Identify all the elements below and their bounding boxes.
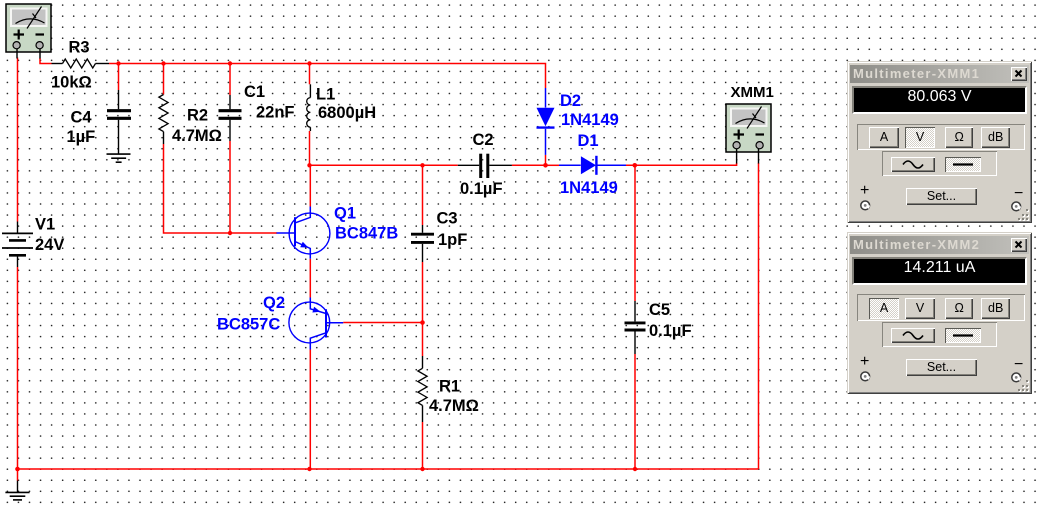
wire L1 bottom to mid junction bbox=[309, 131, 311, 165]
junction C4/top rail bbox=[116, 61, 120, 65]
wire Q2 base to C3 junction bbox=[343, 322, 422, 324]
svg-text:0.1µF: 0.1µF bbox=[460, 180, 503, 198]
label Q1 value bbox=[334, 205, 398, 243]
svg-text:C3: C3 bbox=[437, 210, 458, 228]
svg-text:4.7MΩ: 4.7MΩ bbox=[172, 127, 222, 145]
label L1 value bbox=[316, 86, 376, 123]
resistor R3 bbox=[52, 59, 110, 68]
label R2 value bbox=[172, 107, 222, 146]
junction L1/top rail bbox=[307, 61, 311, 65]
resistor R1 bbox=[418, 356, 427, 422]
svg-text:R3: R3 bbox=[69, 39, 90, 57]
wire Q1 collector up to mid junction bbox=[309, 165, 311, 206]
wire C5 bottom to rail bbox=[634, 354, 636, 469]
junction R1/bottom rail bbox=[420, 467, 424, 471]
svg-text:6800µH: 6800µH bbox=[318, 104, 376, 122]
junction Q2 collector/bottom rail bbox=[307, 467, 311, 471]
svg-text:1N4149: 1N4149 bbox=[560, 179, 618, 197]
label C2 value bbox=[460, 131, 503, 198]
junction C1/top rail bbox=[228, 61, 232, 65]
svg-text:10kΩ: 10kΩ bbox=[51, 74, 92, 92]
wire R1 top bbox=[422, 323, 424, 357]
wire V1 plus rail (left vertical) bbox=[17, 58, 19, 222]
label V1 value bbox=[35, 216, 64, 255]
label D1 value bbox=[560, 132, 618, 197]
label C5 value bbox=[649, 301, 692, 340]
junction C3/R1/Q2 base node bbox=[420, 320, 425, 325]
multimeter icon XMM1 bbox=[726, 104, 771, 164]
transistor Q2 bbox=[289, 298, 343, 350]
svg-text:4.7MΩ: 4.7MΩ bbox=[429, 397, 479, 415]
junction D2/D1 node bbox=[543, 163, 548, 168]
diode D1 bbox=[559, 156, 626, 175]
label R3 value bbox=[51, 39, 92, 92]
wire C3 bottom to Q2 base junction bbox=[422, 262, 424, 323]
svg-text:BC847B: BC847B bbox=[335, 225, 398, 243]
transistor Q1 bbox=[277, 207, 330, 259]
svg-text:R1: R1 bbox=[439, 378, 460, 396]
svg-text:1µF: 1µF bbox=[67, 128, 96, 146]
junction C3/mid rail bbox=[420, 163, 424, 167]
svg-text:C2: C2 bbox=[473, 131, 494, 149]
svg-text:Q2: Q2 bbox=[263, 294, 285, 312]
wire C3 top bbox=[422, 165, 424, 225]
wire R1 bottom to rail bbox=[422, 422, 424, 469]
svg-text:D1: D1 bbox=[578, 132, 599, 150]
svg-text:L1: L1 bbox=[316, 86, 335, 104]
junction C1/Q1 base rail bbox=[228, 231, 232, 235]
junction L1/Q1 collector rail bbox=[307, 163, 311, 167]
wire top rail R3 to D2 bbox=[109, 64, 546, 89]
capacitor C4 bbox=[107, 90, 131, 154]
wire Q1 emitter to Q2 emitter bbox=[309, 259, 311, 298]
svg-text:D2: D2 bbox=[560, 92, 581, 110]
wire R2 branch drop bbox=[163, 64, 165, 95]
label D2 value bbox=[560, 92, 619, 129]
diode D2 bbox=[537, 88, 555, 155]
label Q2 value bbox=[217, 294, 285, 334]
label C4 value bbox=[67, 109, 96, 147]
capacitor C5 bbox=[625, 301, 646, 354]
wire L1 branch drop bbox=[309, 64, 311, 85]
wire R2 bottom to Q1 base bbox=[164, 144, 278, 233]
svg-text:Q1: Q1 bbox=[334, 205, 356, 223]
wire D1 cathode to XMM1 plus bbox=[626, 163, 737, 165]
wire D2 cathode stub bbox=[545, 155, 547, 165]
ground (bottom left) bbox=[5, 481, 29, 500]
svg-text:22nF: 22nF bbox=[256, 104, 295, 122]
wire battery bottom to ground junction bbox=[17, 267, 19, 481]
resistor R2 bbox=[159, 95, 168, 145]
wire XMM1 minus down right side bbox=[758, 163, 760, 469]
label R1 value bbox=[429, 378, 479, 416]
multimeter window XMM1 bbox=[847, 61, 1032, 223]
svg-text:0.1µF: 0.1µF bbox=[649, 322, 692, 340]
svg-text:1N4149: 1N4149 bbox=[561, 111, 619, 129]
battery V1 bbox=[2, 222, 33, 268]
junction D1/C5/XMM1 node bbox=[633, 163, 638, 168]
junction V1/ground/bottom rail bbox=[15, 467, 20, 472]
svg-text:BC857C: BC857C bbox=[217, 316, 280, 334]
svg-text:V1: V1 bbox=[35, 216, 55, 234]
svg-text:R2: R2 bbox=[187, 107, 208, 125]
ground (C4) bbox=[107, 154, 131, 162]
svg-text:XMM1: XMM1 bbox=[731, 84, 774, 101]
wire C2 right to D2 junction bbox=[512, 164, 546, 166]
capacitor C1 bbox=[219, 95, 242, 141]
wire C5 top bbox=[634, 165, 636, 301]
capacitor C3 bbox=[411, 225, 434, 262]
wire bottom rail bbox=[18, 468, 759, 470]
inductor L1 bbox=[307, 84, 311, 131]
multimeter icon XMM2 bbox=[6, 4, 51, 59]
label C1 value bbox=[244, 83, 295, 122]
label C3 value bbox=[437, 210, 468, 250]
svg-text:C1: C1 bbox=[244, 83, 265, 101]
wire mid rail to C2 left bbox=[310, 164, 458, 166]
junction R2/top rail bbox=[161, 61, 165, 65]
wire C1 branch drop bbox=[229, 64, 231, 96]
label XMM1 bbox=[731, 84, 774, 101]
junction C5/bottom rail bbox=[633, 467, 637, 471]
wire C4 branch drop bbox=[118, 64, 120, 91]
wire C1 bottom to base rail bbox=[229, 141, 231, 233]
svg-text:24V: 24V bbox=[35, 236, 64, 254]
wire D2 junction to D1 anode bbox=[546, 164, 560, 166]
capacitor C2 bbox=[458, 154, 512, 178]
multimeter window XMM2 bbox=[847, 232, 1032, 394]
wire XMM2 minus to R3 bbox=[40, 58, 52, 64]
svg-text:C5: C5 bbox=[649, 301, 670, 319]
wire Q2 collector down to bottom rail bbox=[309, 350, 311, 470]
svg-text:C4: C4 bbox=[71, 109, 93, 127]
svg-text:1pF: 1pF bbox=[438, 231, 467, 249]
